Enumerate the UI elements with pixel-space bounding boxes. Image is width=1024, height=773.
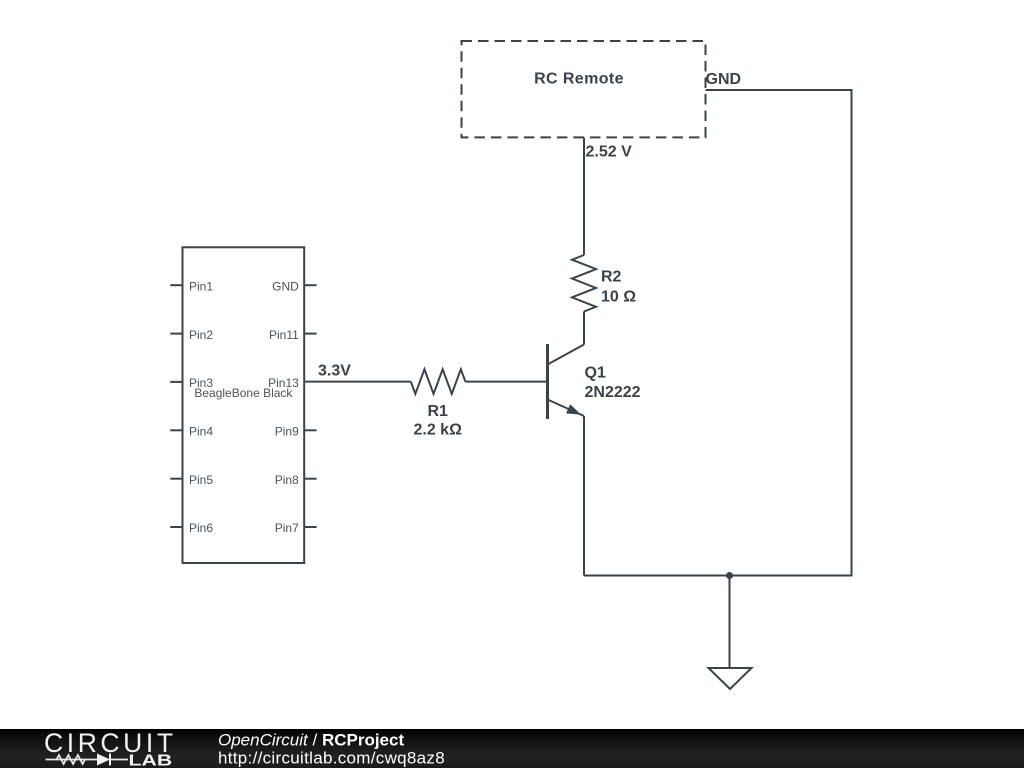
svg-text:10 Ω: 10 Ω bbox=[601, 289, 636, 306]
pin stub Pin9 bbox=[304, 429, 316, 431]
pin stub Pin6 bbox=[170, 526, 182, 528]
junction dot bbox=[726, 572, 733, 579]
svg-text:3.3V: 3.3V bbox=[318, 363, 351, 380]
transistor Q1 base bar bbox=[546, 344, 549, 419]
wire Q1 emitter down to bottom rail bbox=[583, 416, 585, 576]
CircuitLab logo doodle diode bbox=[97, 754, 110, 766]
svg-text:Pin13: Pin13 bbox=[268, 376, 299, 390]
svg-text:Pin4: Pin4 bbox=[189, 425, 213, 439]
svg-text:Pin3: Pin3 bbox=[189, 376, 213, 390]
pin stub Pin11 bbox=[304, 333, 316, 335]
svg-text:Pin2: Pin2 bbox=[189, 328, 213, 342]
svg-text:OpenCircuit / RCProject: OpenCircuit / RCProject bbox=[218, 731, 404, 750]
pin stub Pin3 bbox=[170, 381, 182, 383]
svg-text:2N2222: 2N2222 bbox=[585, 384, 641, 401]
svg-text:GND: GND bbox=[272, 279, 299, 293]
svg-text:R1: R1 bbox=[427, 403, 448, 420]
wire RC Remote bottom pin to R2 top bbox=[583, 138, 585, 256]
svg-text:RC Remote: RC Remote bbox=[534, 71, 624, 88]
svg-text:Pin9: Pin9 bbox=[275, 425, 299, 439]
CircuitLab logo doodle resistor bbox=[57, 755, 86, 764]
pin stub Pin8 bbox=[304, 478, 316, 480]
wire junction to ground bbox=[729, 576, 731, 669]
CircuitLab logo doodle wire bbox=[46, 759, 98, 761]
wire R2 bottom to Q1 collector bbox=[583, 312, 585, 345]
svg-text:Pin11: Pin11 bbox=[269, 328, 299, 342]
pin stub Pin5 bbox=[170, 478, 182, 480]
pin stub Pin4 bbox=[170, 429, 182, 431]
pin stub Pin2 bbox=[170, 333, 182, 335]
svg-text:Pin1: Pin1 bbox=[189, 279, 213, 293]
wire Pin13 to R1 left bbox=[304, 381, 411, 383]
svg-text:LAB: LAB bbox=[129, 751, 173, 768]
wire R1 right to Q1 base bbox=[465, 381, 547, 383]
pin stub Pin7 bbox=[304, 526, 316, 528]
svg-text:2.52 V: 2.52 V bbox=[586, 144, 633, 161]
svg-text:Pin8: Pin8 bbox=[275, 473, 299, 487]
svg-text:Q1: Q1 bbox=[585, 365, 606, 382]
svg-text:Pin7: Pin7 bbox=[275, 521, 299, 535]
svg-text:R2: R2 bbox=[601, 269, 622, 286]
transistor Q1 emitter arrow bbox=[566, 404, 581, 414]
resistor R1 bbox=[411, 369, 466, 394]
pin stub GND bbox=[304, 284, 316, 286]
svg-text:GND: GND bbox=[706, 71, 742, 88]
RC Remote subcircuit box bbox=[462, 41, 706, 137]
transistor Q1 emitter diagonal bbox=[548, 400, 585, 417]
svg-text:Pin6: Pin6 bbox=[189, 521, 213, 535]
pin stub Pin1 bbox=[170, 284, 182, 286]
resistor R2 bbox=[572, 255, 596, 312]
BeagleBone Black box U bbox=[183, 247, 305, 563]
svg-text:2.2 kΩ: 2.2 kΩ bbox=[413, 422, 462, 439]
svg-text:Pin5: Pin5 bbox=[189, 473, 213, 487]
ground symbol bbox=[709, 668, 752, 689]
wire GND net: RC Remote right pin to right rail down to emitter net bbox=[584, 90, 852, 576]
transistor Q1 collector diagonal bbox=[548, 345, 585, 365]
svg-text:http://circuitlab.com/cwq8az8: http://circuitlab.com/cwq8az8 bbox=[218, 748, 445, 767]
